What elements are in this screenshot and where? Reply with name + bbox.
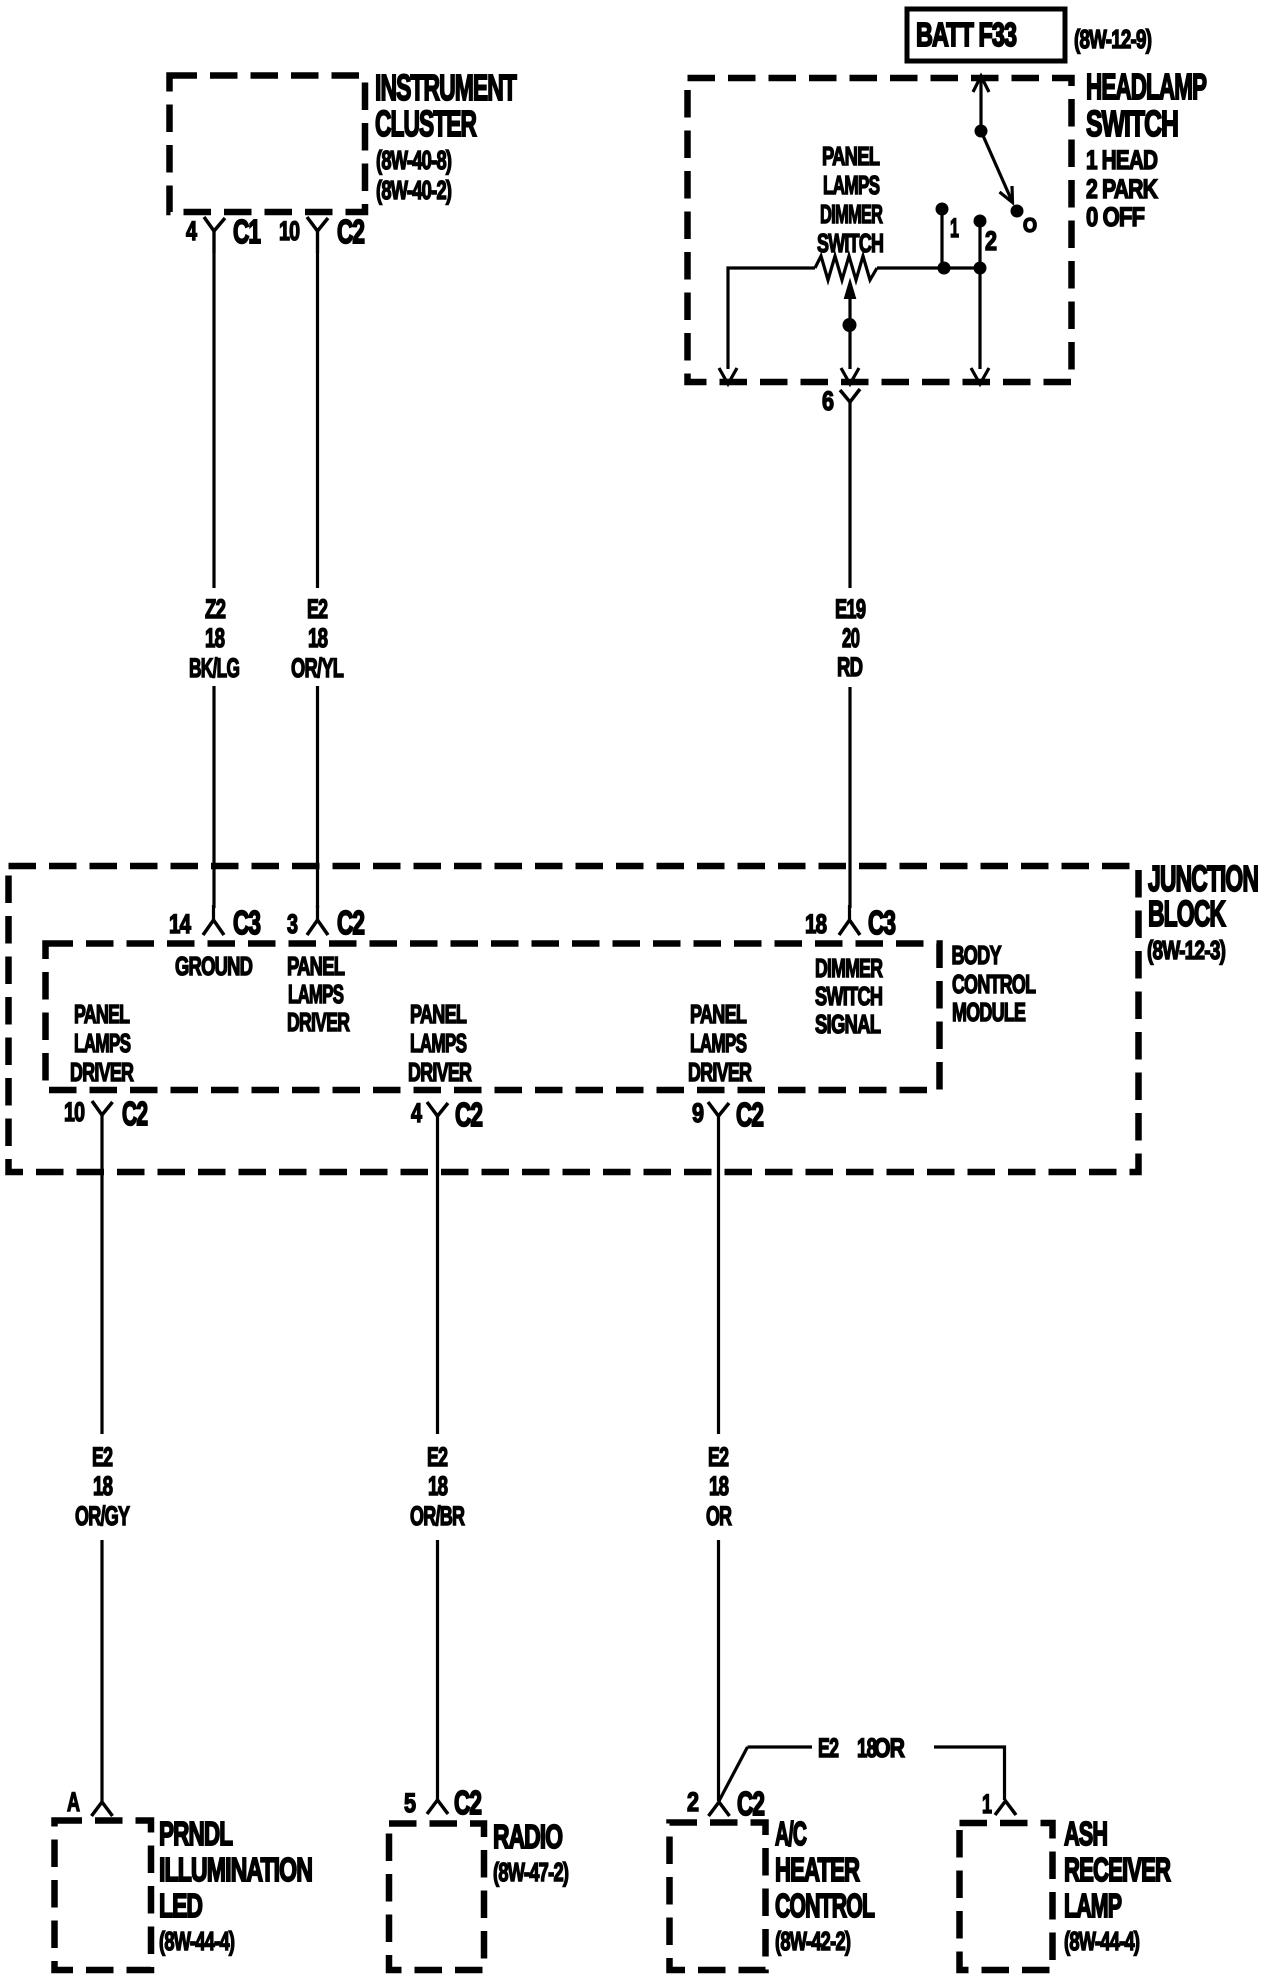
svg-text:E2: E2: [92, 1441, 112, 1472]
svg-text:E2: E2: [427, 1441, 447, 1472]
pin 5 connector C2 radio: [427, 1800, 448, 1814]
wire E19 lower segment: [848, 687, 851, 908]
wire OR lower segment: [717, 1540, 720, 1801]
svg-text:DRIVER: DRIVER: [688, 1058, 752, 1087]
svg-text:BK/LG: BK/LG: [189, 652, 239, 683]
svg-text:DRIVER: DRIVER: [408, 1058, 472, 1087]
svg-text:DIMMER: DIMMER: [820, 199, 883, 229]
svg-text:PANEL: PANEL: [822, 142, 880, 171]
svg-text:C3: C3: [868, 904, 895, 941]
svg-text:1: 1: [982, 1788, 992, 1819]
wire OR/BR upper segment: [436, 1116, 439, 1434]
A/C heater control dashed box: [670, 1823, 766, 1971]
svg-text:C2: C2: [736, 1096, 763, 1133]
contact 1 stub: [936, 203, 949, 269]
svg-text:C3: C3: [233, 904, 260, 941]
svg-text:18: 18: [428, 1471, 448, 1501]
svg-text:PANEL: PANEL: [74, 1000, 129, 1029]
wire OR/GY upper segment: [100, 1115, 103, 1434]
wire OR/BR lower segment: [436, 1540, 439, 1800]
svg-text:0 OFF: 0 OFF: [1086, 203, 1145, 233]
svg-text:MODULE: MODULE: [952, 998, 1026, 1027]
svg-text:C2: C2: [337, 213, 364, 250]
PRNDL illumination LED dashed box: [55, 1821, 152, 1971]
svg-text:14: 14: [169, 909, 192, 939]
wiper arrow of rheostat: [843, 281, 857, 369]
pin 10 connector C2: [307, 217, 328, 253]
svg-text:C2: C2: [454, 1784, 481, 1821]
svg-text:ASH: ASH: [1064, 1815, 1107, 1852]
junction node pin2: [974, 262, 987, 275]
svg-text:18: 18: [205, 623, 225, 653]
svg-text:OR: OR: [874, 1734, 905, 1764]
pin 1 connector ash receiver: [995, 1801, 1016, 1815]
svg-text:E2: E2: [708, 1441, 728, 1472]
svg-text:C2: C2: [455, 1096, 482, 1133]
svg-text:GROUND: GROUND: [175, 952, 253, 981]
svg-text:LAMPS: LAMPS: [690, 1028, 746, 1058]
wire E2 upper segment from cluster: [316, 231, 319, 588]
pin 4 connector C2 junction bottom: [427, 1102, 448, 1116]
svg-text:RECEIVER: RECEIVER: [1064, 1852, 1171, 1888]
svg-text:CLUSTER: CLUSTER: [375, 105, 477, 144]
pin 2 connector C2 A/C: [709, 1802, 730, 1816]
svg-text:OR/GY: OR/GY: [75, 1500, 130, 1531]
svg-text:10: 10: [279, 216, 300, 246]
body control module inner dashed box: [46, 944, 940, 1091]
svg-text:18: 18: [709, 1471, 729, 1501]
pin A connector PRNDL: [92, 1802, 113, 1816]
svg-text:E19: E19: [835, 593, 865, 623]
headlamp switch dashed box: [688, 78, 1072, 382]
pin 18 connector C3 junction top: [839, 905, 860, 935]
arrow down left drop: [719, 368, 737, 384]
svg-text:(8W-12-9): (8W-12-9): [1074, 24, 1152, 54]
svg-text:CONTROL: CONTROL: [775, 1887, 875, 1924]
svg-text:C2: C2: [122, 1095, 148, 1132]
junction node pin1: [938, 262, 951, 275]
svg-text:JUNCTION: JUNCTION: [1148, 860, 1258, 899]
junction block dashed box: [9, 866, 1139, 1172]
radio dashed box: [389, 1824, 484, 1971]
svg-text:2: 2: [687, 1788, 699, 1818]
svg-text:E2: E2: [818, 1732, 838, 1763]
instrument cluster dashed box: [170, 76, 366, 213]
svg-text:(8W-44-4): (8W-44-4): [159, 1927, 235, 1956]
svg-text:18: 18: [308, 623, 328, 653]
svg-text:1 HEAD: 1 HEAD: [1086, 145, 1158, 175]
svg-text:(8W-40-2): (8W-40-2): [376, 176, 452, 205]
wire rheostat left arm and left drop: [728, 268, 815, 369]
svg-text:C2: C2: [337, 904, 364, 941]
svg-text:ILLUMINATION: ILLUMINATION: [159, 1852, 312, 1889]
svg-text:SIGNAL: SIGNAL: [815, 1010, 881, 1039]
branch wire horizontal right piece and drop to pin 1: [934, 1747, 1005, 1800]
svg-text:SWITCH: SWITCH: [1086, 103, 1178, 144]
svg-text:(8W-44-4): (8W-44-4): [1064, 1927, 1140, 1956]
svg-text:E2: E2: [307, 593, 327, 624]
svg-text:CONTROL: CONTROL: [952, 970, 1035, 999]
svg-text:A/C: A/C: [775, 1815, 807, 1853]
svg-text:(8W-47-2): (8W-47-2): [493, 1858, 569, 1887]
svg-text:2 PARK: 2 PARK: [1086, 175, 1158, 205]
svg-text:INSTRUMENT: INSTRUMENT: [375, 69, 517, 108]
svg-text:OR: OR: [706, 1500, 732, 1531]
svg-text:OR/BR: OR/BR: [410, 1500, 465, 1531]
svg-text:O: O: [1023, 215, 1037, 237]
pin 14 connector C3 junction top: [203, 905, 224, 935]
svg-text:18: 18: [93, 1471, 113, 1501]
svg-text:Z2: Z2: [205, 594, 225, 624]
branch wire diagonal to ash receiver: [719, 1747, 748, 1801]
svg-text:10: 10: [64, 1097, 85, 1127]
svg-text:C1: C1: [233, 213, 260, 250]
svg-text:DRIVER: DRIVER: [287, 1008, 350, 1037]
svg-text:(8W-12-3): (8W-12-3): [1147, 935, 1225, 965]
svg-text:20: 20: [842, 623, 860, 653]
pin 9 connector C2 junction bottom: [708, 1102, 729, 1116]
right drop wire: [978, 268, 981, 369]
svg-text:PRNDL: PRNDL: [159, 1815, 233, 1852]
svg-text:(8W-42-2): (8W-42-2): [775, 1927, 851, 1956]
svg-text:LAMPS: LAMPS: [288, 979, 344, 1009]
svg-text:DIMMER: DIMMER: [815, 954, 883, 983]
svg-text:LAMPS: LAMPS: [410, 1028, 466, 1058]
wire battery feed arrow into switch: [973, 76, 989, 131]
arrow down right drop: [971, 368, 989, 384]
svg-text:PANEL: PANEL: [410, 1000, 466, 1029]
svg-text:4: 4: [186, 217, 198, 247]
svg-text:HEATER: HEATER: [775, 1852, 860, 1888]
svg-text:1: 1: [950, 213, 959, 243]
wire Z2 upper segment: [212, 231, 215, 588]
pin 4 connector C1: [204, 217, 225, 253]
svg-text:9: 9: [692, 1099, 704, 1129]
svg-text:BODY: BODY: [952, 941, 1002, 970]
svg-text:PANEL: PANEL: [690, 1000, 746, 1029]
arrow down wiper drop: [841, 368, 859, 384]
svg-text:BATT F33: BATT F33: [916, 17, 1016, 54]
svg-text:HEADLAMP: HEADLAMP: [1086, 68, 1206, 108]
pin 10 connector C2 junction bottom: [92, 1101, 113, 1115]
svg-text:LAMPS: LAMPS: [74, 1028, 130, 1058]
svg-text:LAMP: LAMP: [1064, 1887, 1122, 1924]
wire OR upper segment: [717, 1116, 720, 1434]
wire rheostat right arm: [877, 266, 980, 269]
fuse BATT F33 box: [907, 9, 1065, 61]
svg-text:SWITCH: SWITCH: [817, 229, 883, 258]
svg-text:SWITCH: SWITCH: [815, 982, 882, 1011]
switch arm common pole: [975, 125, 1024, 218]
pin 3 connector C2 junction top: [307, 905, 328, 935]
svg-text:BLOCK: BLOCK: [1148, 895, 1226, 934]
svg-text:LED: LED: [159, 1888, 203, 1925]
svg-text:2: 2: [985, 227, 997, 257]
svg-text:18: 18: [805, 909, 827, 939]
wire E2 lower segment from cluster: [316, 686, 319, 908]
svg-text:3: 3: [287, 910, 298, 940]
dimmer rheostat zigzag: [815, 256, 877, 280]
ash receiver lamp dashed box: [960, 1823, 1053, 1970]
branch wire horizontal left piece: [748, 1745, 813, 1748]
svg-text:OR/YL: OR/YL: [291, 652, 344, 682]
svg-text:6: 6: [822, 387, 834, 417]
contact 2 stub: [974, 215, 987, 269]
svg-text:C2: C2: [737, 1785, 764, 1822]
wire Z2 lower segment: [212, 686, 215, 908]
pin 6 connector: [840, 389, 860, 420]
svg-text:LAMPS: LAMPS: [823, 170, 879, 200]
svg-text:4: 4: [411, 1099, 423, 1129]
svg-text:5: 5: [404, 1789, 416, 1819]
svg-text:RADIO: RADIO: [493, 1819, 562, 1856]
svg-text:A: A: [67, 1786, 80, 1817]
svg-text:RD: RD: [837, 652, 862, 682]
wire E19 upper segment: [848, 420, 851, 588]
svg-text:DRIVER: DRIVER: [70, 1058, 134, 1087]
svg-text:(8W-40-8): (8W-40-8): [376, 146, 452, 175]
wire OR/GY lower segment: [100, 1540, 103, 1803]
svg-text:PANEL: PANEL: [287, 952, 345, 981]
